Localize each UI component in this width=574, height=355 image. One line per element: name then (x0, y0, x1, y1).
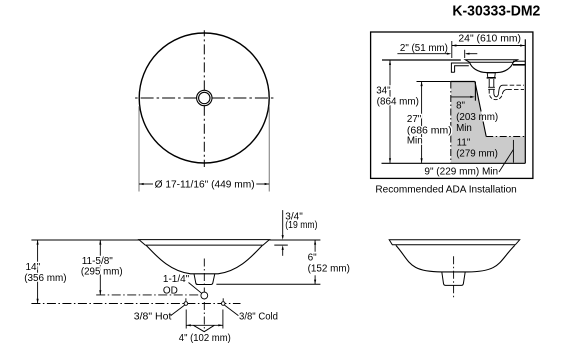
dim 4in line (186, 324, 223, 326)
svg-text:27": 27" (407, 114, 422, 125)
extension line left (138, 106, 140, 191)
9in vertical line (512, 140, 514, 163)
dim 2in tick (464, 50, 466, 58)
trapezoid left dash-dot edge (450, 82, 452, 163)
dim 6in lower (314, 275, 316, 284)
svg-text:Min: Min (456, 123, 472, 134)
svg-text:OD: OD (163, 285, 178, 296)
horizontal centerline (134, 97, 276, 99)
cold supply (221, 302, 225, 306)
sink rim lens ADA (465, 60, 517, 63)
drain fitting left view (194, 274, 215, 285)
dim 24in extension (451, 41, 453, 58)
bowl curve ADA (470, 62, 514, 72)
centerline A (96, 294, 201, 296)
extension line right (268, 106, 270, 191)
svg-text:Ø 17-11/16" (449 mm): Ø 17-11/16" (449 mm) (155, 180, 255, 191)
floor line (382, 162, 526, 164)
svg-text:(19 mm): (19 mm) (285, 220, 317, 231)
trapezoid top edge (451, 81, 475, 83)
drain outlet circle (201, 292, 208, 299)
dim 27in line (421, 82, 423, 163)
slip nut (488, 87, 495, 89)
toe top dash-dot edge (486, 136, 525, 138)
svg-text:4" (102 mm): 4" (102 mm) (179, 333, 231, 344)
center line left view (203, 259, 205, 333)
tailpiece (489, 79, 494, 87)
bowl curve right view (396, 245, 515, 272)
sink rim left view (139, 240, 270, 246)
svg-text:(295 mm): (295 mm) (81, 267, 123, 278)
svg-text:Min: Min (407, 136, 423, 147)
leader 1-1/4 (189, 283, 202, 294)
bottom level line (216, 283, 320, 285)
ADA frame box (371, 32, 533, 178)
dim 27in extension (417, 81, 451, 83)
vertical centerline (203, 30, 205, 167)
centerline B (31, 303, 240, 305)
trap J-bend outer (489, 90, 502, 100)
trapezoid slant right edge (475, 82, 486, 137)
dim 11-5/8 line (99, 240, 101, 295)
dim 14in line (37, 240, 39, 303)
counter line left (382, 59, 461, 61)
svg-text:Recommended ADA Installation: Recommended ADA Installation (375, 184, 517, 195)
rim level extension left (31, 239, 139, 241)
dim 8in line (451, 96, 473, 98)
rim level extension right (269, 239, 320, 241)
bowl curve left view (146, 245, 262, 273)
dim 2in arrows (397, 53, 449, 55)
dim 6in upper (314, 240, 316, 252)
drain hole outer (197, 90, 212, 105)
apron profile inner (455, 66, 469, 73)
svg-text:34": 34" (376, 85, 391, 96)
svg-text:K-30333-DM2: K-30333-DM2 (452, 3, 540, 20)
sink rim circle (139, 33, 269, 163)
8in extension tick (474, 82, 476, 101)
drain flange (487, 73, 495, 78)
svg-text:11": 11" (457, 138, 471, 149)
drain arm dashed (503, 84, 524, 86)
svg-text:8": 8" (456, 101, 465, 112)
trap elbow (502, 89, 507, 94)
svg-text:3/8" Hot: 3/8" Hot (134, 312, 172, 323)
svg-text:6": 6" (308, 253, 318, 264)
svg-text:(356 mm): (356 mm) (24, 273, 66, 284)
svg-text:(152 mm): (152 mm) (308, 263, 350, 274)
svg-text:1-1/4": 1-1/4" (163, 274, 190, 285)
gray knee clearance trapezoid (451, 82, 486, 137)
sink rim right view (389, 240, 520, 245)
svg-text:11-5/8": 11-5/8" (82, 256, 114, 267)
svg-text:9" (229 mm) Min: 9" (229 mm) Min (424, 167, 498, 178)
counter line right of sink (513, 60, 525, 62)
center line right view (453, 256, 455, 298)
trap J-bend inner (494, 90, 499, 97)
drain hole inner (199, 92, 210, 103)
svg-text:2" (51 mm): 2" (51 mm) (400, 43, 448, 54)
dim 9in leader (499, 150, 513, 173)
svg-text:(864 mm): (864 mm) (377, 96, 419, 107)
dim 3/4 lower (282, 248, 284, 256)
dim 3/4 tick (274, 244, 288, 246)
apron profile outer (451, 63, 469, 72)
svg-text:(203 mm): (203 mm) (456, 112, 498, 123)
dim 34in line (389, 60, 391, 163)
flow chevron (193, 325, 214, 331)
dim 4in extensions (185, 310, 187, 329)
svg-text:24" (610 mm): 24" (610 mm) (458, 34, 521, 45)
svg-text:(279 mm): (279 mm) (456, 149, 498, 160)
dim 3/4 upper (282, 210, 284, 237)
drain fitting right view (442, 272, 465, 286)
dim 24in line (452, 45, 525, 47)
wall line (524, 39, 526, 163)
dimension line diameter (139, 183, 153, 185)
svg-text:14": 14" (26, 262, 41, 273)
hot supply (184, 302, 188, 306)
svg-text:3/8" Cold: 3/8" Cold (239, 312, 278, 323)
gray toe clearance rectangle (451, 137, 526, 163)
